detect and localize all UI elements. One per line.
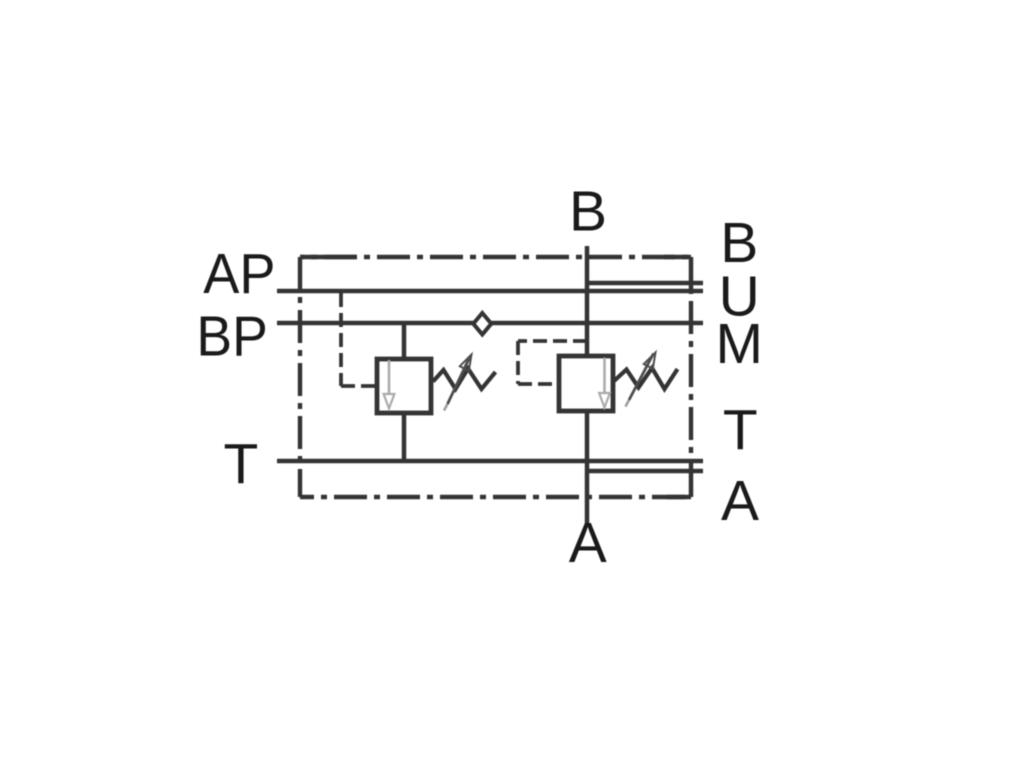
relief valve V2 body — [559, 356, 613, 411]
wire AP line — [277, 289, 703, 294]
enclosure border bottom (dash-dot) — [300, 495, 691, 499]
wire BP / M line — [277, 321, 703, 326]
svg-text:BP: BP — [196, 304, 267, 368]
relief valve V1 body — [377, 359, 431, 413]
svg-text:AP: AP — [203, 242, 275, 306]
wire A tap line (to right edge) — [587, 469, 703, 474]
enclosure border left (dash-dot) — [298, 257, 302, 497]
wire bottom-right corner — [689, 471, 694, 497]
svg-text:M: M — [716, 312, 763, 376]
svg-text:A: A — [721, 469, 759, 533]
relief valve V2 adjustment arrow — [626, 353, 656, 407]
svg-text:T: T — [723, 398, 758, 462]
relief valve V1 internal flow arrow — [384, 360, 395, 409]
orifice (diamond) on BP line — [473, 313, 491, 335]
svg-text:B: B — [569, 180, 607, 244]
relief valve V1 spring — [433, 369, 496, 390]
wire A vertical — [585, 461, 590, 523]
wire B tap line (to right edge) — [587, 281, 703, 286]
wire B vertical — [585, 246, 590, 356]
pilot line to valve V1 (dashed) — [341, 293, 376, 386]
pilot line to valve V2 (dashed) — [518, 341, 587, 384]
wire valve V2 outlet to T — [585, 410, 590, 461]
wire valve V1 inlet stub — [402, 323, 407, 359]
enclosure border right (dash-dot) — [689, 291, 693, 471]
relief valve V1 adjustment arrow — [444, 355, 472, 411]
enclosure border top (dash-dot) — [300, 255, 691, 259]
relief valve V2 internal flow arrow — [599, 358, 610, 408]
svg-text:T: T — [223, 432, 258, 496]
wire valve V1 outlet to T — [402, 413, 407, 461]
relief valve V2 spring — [614, 368, 678, 389]
wire top-right corner — [689, 257, 694, 291]
wire T line — [277, 459, 703, 464]
